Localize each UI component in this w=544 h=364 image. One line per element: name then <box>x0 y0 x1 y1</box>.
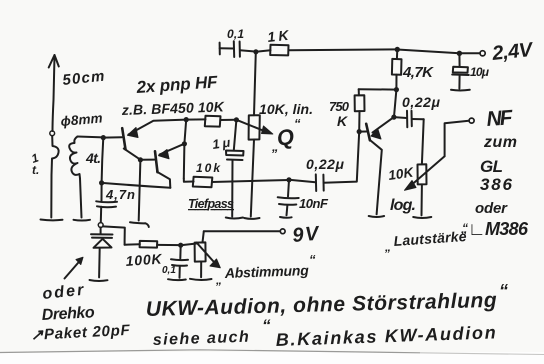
transistor Q3 bar <box>366 124 370 141</box>
svg-text:log.: log. <box>390 197 416 214</box>
svg-text:Q: Q <box>275 124 295 151</box>
ground P2 <box>413 217 431 218</box>
svg-text:“: “ <box>309 252 316 267</box>
svg-text:4,7n: 4,7n <box>105 187 135 202</box>
svg-text:9V: 9V <box>292 223 321 247</box>
wire node A down <box>102 138 104 183</box>
svg-text:∟M386: ∟M386 <box>468 219 529 239</box>
svg-text:siehe auch: siehe auch <box>153 329 250 349</box>
wire 4,7K junction to 750K top <box>359 88 397 90</box>
transistor Q1 emitter wire <box>129 120 187 135</box>
svg-text:0,1: 0,1 <box>227 27 244 41</box>
transistor Q1 emitter arrow <box>128 128 139 138</box>
svg-text:2,4V: 2,4V <box>490 39 535 65</box>
wiper P3 arrow <box>197 243 214 262</box>
svg-text:„: „ <box>215 273 222 287</box>
wire supply rail right <box>397 50 459 54</box>
ground 10u <box>451 89 470 92</box>
svg-text:386: 386 <box>480 175 513 194</box>
wire node A to T1 base <box>103 136 122 138</box>
resistor R2 1K <box>256 50 271 52</box>
svg-text:10k: 10k <box>196 161 221 175</box>
svg-text:10K, lin.: 10K, lin. <box>259 101 313 117</box>
wire coil L2 bottom to ground <box>80 179 82 218</box>
node top junction <box>253 49 258 54</box>
wire coil top to node A <box>78 136 104 139</box>
coil L1 1t <box>51 136 58 218</box>
svg-text:Tiefpass: Tiefpass <box>188 197 234 211</box>
transistor Q3 base wire <box>359 131 366 133</box>
wire 9V down to P3 <box>203 231 204 242</box>
capacitor C5 10u <box>458 53 460 66</box>
wire junction to P3 wiper start <box>181 244 197 246</box>
potentiometer P2 10K log body <box>418 164 427 184</box>
ground 10nF <box>280 216 292 219</box>
node junction 100K right <box>178 243 183 248</box>
node junction under 4,7K <box>394 87 399 92</box>
ground stub under Q1 collector line <box>130 222 149 227</box>
svg-text:0,22μ: 0,22μ <box>402 94 441 110</box>
resistor R6 100K <box>125 243 140 246</box>
svg-text:4,7K: 4,7K <box>402 64 434 81</box>
transistor Q3 collector wire <box>370 140 382 214</box>
ground C8 <box>168 278 186 281</box>
node A junction <box>101 135 106 140</box>
wire to 2,4V terminal <box>459 52 480 54</box>
node Q3 base junction <box>357 129 362 134</box>
svg-text:“: “ <box>499 281 508 301</box>
node supply junction over 4,7K <box>395 47 400 52</box>
transistor Q3 emitter arrow <box>371 129 381 139</box>
svg-text:10nF: 10nF <box>299 196 329 211</box>
capacitor C4 10nF <box>288 180 289 197</box>
wire junction down to foot <box>139 160 141 221</box>
wire P2 bottom to ground <box>421 184 423 215</box>
svg-text:„: „ <box>384 240 391 254</box>
capacitor C7 0,22u (middle) wire <box>289 180 316 183</box>
wiper P2 arrow <box>412 156 445 184</box>
node C1/B2 junction <box>138 157 143 162</box>
svg-text:oder: oder <box>475 200 508 217</box>
node 9V terminal <box>280 229 285 234</box>
node R1 right junction <box>234 117 239 122</box>
wire C6 down to volume pot <box>422 119 424 164</box>
node NF terminal <box>469 118 474 123</box>
svg-text:Abstimmung: Abstimmung <box>224 262 310 281</box>
ground coil L2 <box>74 219 91 222</box>
node junction left-lower <box>99 180 104 185</box>
wire 1u cap from junction down <box>234 120 237 151</box>
wire 9V terminal <box>204 230 280 232</box>
transistor Q1 BF450 bar <box>122 128 125 149</box>
resistor R4 750K <box>358 89 360 95</box>
node varactor top circle <box>98 223 103 228</box>
svg-text:Drehko: Drehko <box>41 304 95 324</box>
ground antenna <box>41 219 63 222</box>
wire wiper to NF terminal <box>445 121 469 157</box>
capacitor C8 0,1 (tuning filter) <box>179 245 181 258</box>
svg-text:“: “ <box>462 221 468 235</box>
resistor R1 10K (emitter rail) <box>186 118 205 120</box>
ground varactor <box>90 279 108 282</box>
transistor Q2 emitter arrow <box>159 150 170 159</box>
node Q3 emitter junction <box>391 115 396 120</box>
svg-text:100K: 100K <box>125 250 163 269</box>
svg-text:K: K <box>337 113 348 129</box>
ground stub under P1 <box>244 217 259 220</box>
wire P1 top to top rail <box>254 52 256 115</box>
node supply junction over 10u <box>457 51 462 56</box>
svg-text:0,22μ: 0,22μ <box>306 156 345 172</box>
capacitor C6 0,22u (top right) <box>394 116 407 119</box>
svg-text:750: 750 <box>329 99 350 114</box>
node 2,4V terminal <box>480 51 485 56</box>
capacitor C2 1u plates <box>226 151 244 156</box>
wire 1u down to foot <box>231 160 233 217</box>
wire supply down to Q3 emitter node <box>394 90 396 117</box>
node emitter rail junction <box>184 117 189 122</box>
wire junction to Q2 base <box>140 159 154 161</box>
wire Q2 collector to left node <box>102 183 171 188</box>
potentiometer P1 wiper arrow <box>236 120 263 131</box>
wire P3 bottom <box>200 262 202 278</box>
ground stub under C2 <box>226 218 243 219</box>
ground Q3 collector <box>369 216 384 217</box>
svg-text:t.: t. <box>32 163 39 177</box>
svg-text:4t.: 4t. <box>85 150 101 166</box>
varactor D1 <box>100 227 102 233</box>
antenna ANT 50cm <box>53 56 55 131</box>
resistor R3 4,7K <box>396 50 398 59</box>
resistor R5 10k (Tiefpass) <box>193 177 213 187</box>
arrow annotation to varactor <box>65 260 82 279</box>
wire 1K to supply rail <box>289 48 398 51</box>
transistor Q2 collector wire <box>157 172 170 188</box>
paper bottom edge <box>0 350 420 353</box>
capacitor C1 0,1 top <box>219 43 221 55</box>
svg-text:1K: 1K <box>267 27 290 45</box>
svg-text:NF: NF <box>486 106 515 131</box>
node Tiefpass junction <box>286 177 291 182</box>
coil L2 4t <box>69 137 80 179</box>
svg-text:“: “ <box>262 316 271 335</box>
wire varactor node to 100K <box>103 226 125 244</box>
node antenna plug circle <box>50 131 55 136</box>
transistor Q2 emitter wire <box>160 144 185 155</box>
svg-text:GL: GL <box>480 157 503 176</box>
ground P3 <box>190 279 212 280</box>
transistor Q3 emitter wire <box>373 117 394 132</box>
transistor Q2 bar <box>155 151 158 172</box>
transistor Q1 collector wire <box>124 149 140 160</box>
svg-text:0,1: 0,1 <box>162 265 176 276</box>
potentiometer P3 Abstimmung body <box>195 242 206 261</box>
svg-text:10μ: 10μ <box>470 65 490 79</box>
wire emitter rail down <box>184 120 186 144</box>
wire Tiefpass horizontal left <box>184 178 194 181</box>
wire P1 bottom down <box>251 140 254 217</box>
svg-text:zum: zum <box>483 134 517 151</box>
capacitor C3 4,7n <box>96 200 117 203</box>
svg-text:“: “ <box>294 116 301 131</box>
node Q2 emitter junction <box>182 141 187 146</box>
wire Tiefpass left riser <box>183 144 186 179</box>
potentiometer P1 10K lin body <box>249 115 260 139</box>
